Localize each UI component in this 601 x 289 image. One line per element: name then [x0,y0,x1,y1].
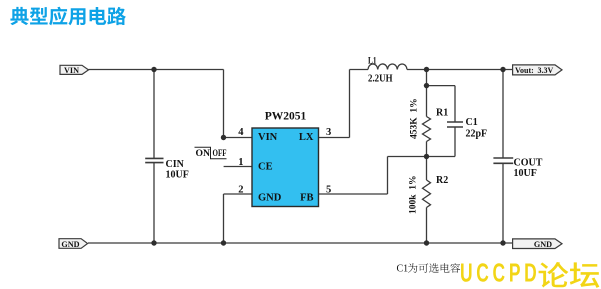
svg-text:3: 3 [326,127,331,138]
svg-text:453K 1%: 453K 1% [410,98,420,139]
svg-text:4: 4 [238,127,244,138]
svg-text:VIN: VIN [64,66,79,75]
svg-text:Vout:: Vout: [515,66,534,75]
svg-text:C1: C1 [397,264,409,275]
svg-text:ON: ON [196,149,211,159]
svg-text:CE: CE [258,161,273,172]
svg-text:100k 1%: 100k 1% [409,175,419,214]
svg-text:22pF: 22pF [466,129,488,140]
svg-text:LX: LX [299,132,314,143]
svg-text:C1: C1 [466,117,478,128]
svg-text:OFF: OFF [213,149,227,159]
svg-text:2.2UH: 2.2UH [368,73,393,84]
svg-text:COUT: COUT [514,158,543,169]
svg-text:GND: GND [61,240,79,249]
svg-text:FB: FB [300,193,313,204]
svg-text:10UF: 10UF [166,170,189,181]
svg-text:1: 1 [238,157,243,168]
svg-text:GND: GND [534,240,552,249]
svg-text:5: 5 [326,185,331,196]
svg-text:PW2051: PW2051 [265,111,307,123]
svg-text:UCCPD: UCCPD [460,258,540,287]
svg-text:R1: R1 [436,108,448,119]
svg-text:2: 2 [238,185,243,196]
svg-text:10UF: 10UF [514,168,537,179]
svg-text:L1: L1 [368,56,377,66]
svg-text:3.3V: 3.3V [538,66,554,75]
svg-text:VIN: VIN [258,132,278,143]
svg-text:R2: R2 [436,175,448,186]
svg-text:CIN: CIN [166,159,185,170]
svg-text:GND: GND [258,193,282,204]
